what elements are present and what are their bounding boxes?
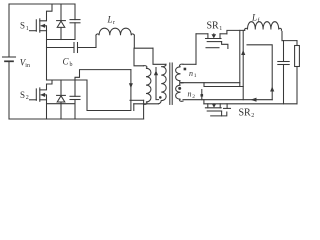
svg-text:C: C [63,57,70,67]
capacitor C1 branch [74,4,76,20]
gate link wire [204,86,243,88]
top rail [9,3,75,5]
secondary top wire [183,63,196,65]
svg-text:SR: SR [239,108,252,119]
svg-text:SR: SR [207,21,220,32]
loop current arrow (down) [129,83,133,88]
primary bottom wire [134,103,159,105]
diode D2 branch [60,80,62,95]
load bottom lead [296,67,298,104]
blocking capacitor Cb [47,47,75,49]
SR1 to Lf wire [227,30,245,33]
secondary winding n1 [176,64,183,83]
svg-text:1: 1 [194,73,197,79]
output capacitor [283,41,285,62]
svg-text:n: n [188,90,192,99]
current loop rectangle (primary loop) [75,70,131,80]
core line right [171,63,173,104]
svg-text:b: b [70,62,73,68]
secondary winding n2 [176,83,183,102]
secondary bottom wire [183,99,272,101]
midpoint wire [46,31,48,80]
svg-text:S: S [20,90,25,100]
rectifier SR2 [205,104,230,116]
diode D1 branch [60,4,62,21]
Lf right lead [281,31,283,40]
svg-text:1: 1 [219,26,222,32]
Lm branch wire [134,48,144,66]
capacitor C2 branch [74,80,76,96]
magnetizing inductor Lm [144,66,151,105]
output node wire [282,40,297,42]
SR2 gate feed riser with junction dot [201,90,203,100]
output return wire [204,103,297,105]
input source branch lower wire [8,63,10,120]
stub wire A to C [203,100,205,104]
S2 cell bottom tie wire [47,103,76,105]
svg-text:2: 2 [26,95,29,101]
load resistor box [295,46,300,67]
input source branch upper wire [8,4,10,57]
bottom rail [9,118,144,120]
up arrow on inner loop riser [270,87,274,92]
battery Vin [3,56,16,58]
svg-text:r: r [113,20,115,26]
core line left [169,63,171,104]
S2 source to bottom rail [46,100,48,119]
resonant inductor Lr [96,28,134,48]
riser to SR1 [195,34,197,65]
wire junction to primary [134,47,153,49]
transistor S1 [30,4,53,32]
left arrow on secondary bottom wire [251,98,257,102]
svg-text:L: L [107,14,113,24]
load top lead [296,41,298,46]
svg-text:S: S [20,21,25,31]
center tap wire [183,82,240,84]
primary top lead [153,48,166,64]
inner loop wire [247,45,272,100]
center tap riser to Lf node [239,30,241,86]
polarity dot n2 (round) [178,87,181,90]
S1 cell bottom tie wire [47,39,76,41]
svg-text:n: n [189,69,193,78]
rectifier SR1 [196,34,228,49]
polarity dot n1 (square) [184,68,187,71]
transformer primary winding [159,64,167,104]
polarity dot primary (round) [159,96,162,99]
svg-text:2: 2 [192,94,195,100]
svg-text:1: 1 [26,26,29,32]
transistor S2 [30,80,53,101]
magnetizing current arrow (up) [156,68,159,100]
svg-text:L: L [251,13,257,23]
output inductor Lf [245,22,282,31]
rail to primary riser [130,99,144,101]
svg-text:in: in [25,63,30,69]
svg-text:f: f [258,17,260,24]
S2 cell top tie wire [47,79,88,81]
svg-text:2: 2 [251,113,254,119]
freewheel riser with up arrow [242,30,244,99]
